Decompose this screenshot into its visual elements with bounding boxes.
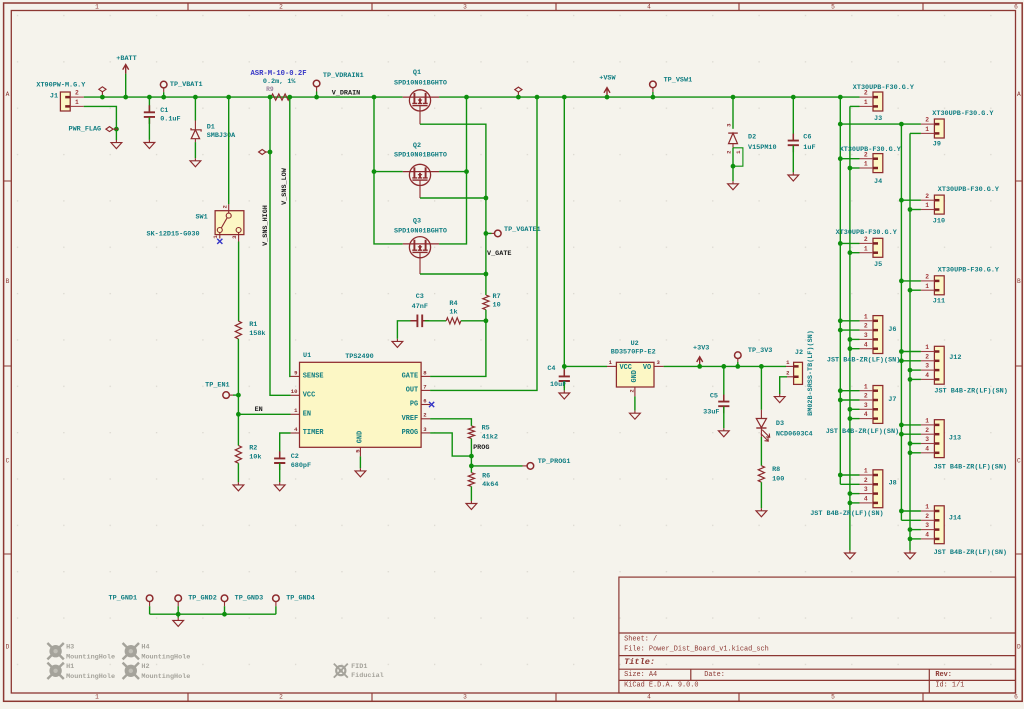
mounting hole H4 [123, 643, 139, 659]
svg-text:XT30UPB-F30.G.Y: XT30UPB-F30.G.Y [938, 186, 1000, 194]
junction [908, 527, 913, 532]
junction [651, 95, 656, 100]
junction [731, 95, 736, 100]
U1 pin 10 VCC [291, 394, 300, 396]
junction [735, 364, 740, 369]
wire pin 2 [840, 399, 859, 401]
J14 pin 1 [921, 510, 935, 512]
connector J1 XT90PW-M.G.Y [60, 92, 70, 111]
wire pin1 to GND column [910, 289, 921, 291]
wire pin 2 [901, 360, 921, 362]
test point TP_VBAT1 [163, 88, 165, 93]
diode D2 V15PM10 [732, 97, 734, 129]
svg-text:VCC: VCC [303, 391, 315, 399]
wire V_SNS_LOW (R9 right to U1 SENSE) [289, 97, 292, 376]
test point TP_GND1 [146, 595, 153, 602]
test point TP_EN1 [229, 394, 233, 396]
svg-text:5: 5 [831, 694, 835, 701]
svg-text:2: 2 [864, 236, 868, 243]
connector J13 JST B4B-ZR(LF)(SN) [934, 420, 944, 458]
resistor R9 ASR-M-10-0.2F shunt [271, 94, 290, 100]
wire PROG pin to node [430, 433, 471, 456]
wire node to R6 [470, 456, 472, 473]
junction [469, 454, 474, 459]
D2 pins 1+2 tie loop [732, 148, 734, 166]
svg-text:47nF: 47nF [412, 303, 428, 311]
no-connect on U1 PG [429, 402, 434, 407]
junction [899, 279, 904, 284]
wire gate bus V_GATE [420, 124, 486, 295]
junction [838, 95, 843, 100]
test point TP_GND3 [221, 595, 228, 602]
junction [899, 122, 904, 127]
wire 3V3 rail [664, 365, 786, 367]
J6 pin 2 [860, 329, 874, 331]
svg-text:XT30UPB-F30.G.Y: XT30UPB-F30.G.Y [836, 229, 898, 237]
U1 pin 1 EN [291, 413, 300, 415]
junction [484, 231, 489, 236]
svg-text:2: 2 [864, 323, 868, 330]
svg-text:XT90PW-M.G.Y: XT90PW-M.G.Y [36, 82, 86, 90]
junction [791, 95, 796, 100]
wire VREF to R5 [430, 419, 471, 426]
wire pin1 to GND column [850, 252, 860, 254]
svg-text:1: 1 [95, 694, 99, 701]
junction [236, 412, 241, 417]
svg-text:R6: R6 [482, 473, 490, 481]
svg-text:4: 4 [864, 341, 868, 348]
svg-text:VREF: VREF [402, 415, 419, 423]
svg-text:PROG: PROG [473, 444, 489, 452]
svg-text:V_SNS_LOW: V_SNS_LOW [281, 167, 289, 205]
svg-text:2: 2 [279, 694, 283, 701]
connector J9 XT30UPB-F30.G.Y [934, 119, 944, 138]
svg-text:PROG: PROG [402, 429, 419, 437]
svg-text:+VSW: +VSW [599, 74, 616, 82]
capacitor C3 47nF [392, 339, 403, 348]
svg-text:10: 10 [291, 388, 298, 395]
svg-text:1: 1 [925, 418, 929, 425]
svg-text:1: 1 [864, 99, 868, 106]
J13 pin 1 [921, 424, 935, 426]
test point TP_3V3 [737, 358, 739, 362]
capacitor C6 1uF [792, 97, 794, 140]
svg-text:J10: J10 [933, 217, 945, 225]
ground right column [905, 550, 916, 559]
junction [848, 337, 853, 342]
wire pin 3 [910, 443, 921, 445]
svg-text:J1: J1 [50, 92, 58, 100]
svg-text:R8: R8 [772, 466, 780, 474]
regulator U2 BD3570FP-E2 [616, 362, 654, 387]
junction [908, 288, 913, 293]
junction [721, 364, 726, 369]
J13 pin 2 [921, 433, 935, 435]
junction [372, 95, 377, 100]
svg-text:D1: D1 [207, 123, 215, 131]
wire U1 OUT to VSW bus [430, 97, 537, 390]
svg-text:B: B [1017, 278, 1021, 285]
wire bus to SW1 [228, 97, 230, 204]
J12 pin 2 [921, 360, 935, 362]
svg-text:2: 2 [864, 393, 868, 400]
svg-text:TP_GND3: TP_GND3 [235, 594, 264, 602]
wire pin2 to +VSW column [840, 242, 859, 244]
junction [605, 95, 610, 100]
J2 pin 1 [786, 365, 794, 367]
J8 pin 1 [860, 474, 874, 476]
svg-text:3: 3 [925, 436, 929, 443]
J6 pin 3 [860, 338, 874, 340]
svg-text:J7: J7 [888, 396, 896, 404]
capacitor C1 0.1uF [148, 97, 150, 112]
wire pin 4 [910, 538, 921, 540]
transistor Q1 SPD10N01BGHTO [409, 90, 430, 111]
svg-text:EN: EN [303, 410, 311, 418]
svg-text:7: 7 [423, 383, 426, 390]
svg-text:XT30UPB-F30.G.Y: XT30UPB-F30.G.Y [840, 146, 902, 154]
junction [226, 95, 231, 100]
svg-text:3: 3 [463, 694, 467, 701]
junction [562, 364, 567, 369]
svg-text:1: 1 [864, 161, 868, 168]
connector J4 XT30UPB-F30.G.Y [873, 154, 883, 173]
svg-text:4: 4 [925, 532, 929, 539]
junction [314, 95, 319, 100]
junction [484, 272, 489, 277]
junction [848, 346, 853, 351]
svg-text:JST B4B-ZR(LF)(SN): JST B4B-ZR(LF)(SN) [934, 549, 1007, 557]
junction [838, 156, 843, 161]
wire pin 4 [850, 418, 860, 420]
wire pin2 to +VSW column [901, 280, 921, 282]
junction [731, 164, 736, 169]
U1 pin 9 SENSE [291, 375, 300, 377]
svg-text:6: 6 [1014, 4, 1018, 11]
junction [838, 241, 843, 246]
test point TP_VDRAIN1 [316, 87, 318, 92]
J14 pin 2 [921, 519, 935, 521]
J3 pin 2 [860, 96, 874, 98]
junction [838, 122, 843, 127]
svg-text:C5: C5 [710, 393, 718, 401]
svg-text:PWR_FLAG: PWR_FLAG [69, 125, 102, 133]
wire V_SNS_HIGH (R9 left to U1 VCC) [270, 97, 291, 395]
svg-text:J8: J8 [889, 480, 897, 488]
wire pin 3 [910, 369, 921, 371]
LED D3 NCD0603C4 [760, 366, 762, 409]
junction [848, 407, 853, 412]
svg-text:TP_GND4: TP_GND4 [286, 594, 315, 602]
svg-text:SK-12D15-G030: SK-12D15-G030 [147, 230, 200, 238]
junction [464, 95, 469, 100]
junction [176, 612, 181, 617]
wire R1 to EN node [237, 339, 239, 414]
J12 pin 4 [921, 378, 935, 380]
resistor R6 4k64 [468, 473, 474, 487]
svg-text:4: 4 [864, 496, 868, 503]
wire pin 1 [840, 390, 859, 392]
svg-text:2: 2 [925, 513, 929, 520]
J8 pin 4 [860, 502, 874, 504]
svg-text:C6: C6 [803, 134, 811, 142]
svg-text:A: A [6, 91, 10, 98]
wire pin2 to +VSW column [840, 158, 859, 160]
wire SW1 to R1 [238, 242, 240, 322]
svg-text:J3: J3 [874, 115, 882, 123]
wire pin 4 [910, 378, 921, 380]
svg-text:TP_GND2: TP_GND2 [188, 594, 217, 602]
wire pin 4 [850, 348, 860, 350]
junction [268, 150, 273, 155]
J2 pin 2 [787, 376, 794, 378]
svg-text:1: 1 [925, 504, 929, 511]
wire TP_GND bus [150, 613, 276, 615]
power flag PWR_FLAG (GND net) [106, 127, 113, 132]
wire to Q2 drain [374, 171, 403, 173]
test point TP_PROG1 [471, 465, 522, 467]
wire gate node down to U1 GATE [430, 321, 486, 377]
junction [562, 95, 567, 100]
wire pin1 to GND column [910, 209, 921, 211]
svg-text:Id: 1/1: Id: 1/1 [935, 681, 964, 689]
svg-text:J14: J14 [949, 515, 961, 523]
J1 pin 1 [70, 105, 84, 107]
svg-text:BM02B-SRSS-TB(LF)(SN): BM02B-SRSS-TB(LF)(SN) [807, 330, 815, 416]
svg-text:V_SNS_HIGH: V_SNS_HIGH [262, 205, 270, 246]
svg-text:0.2m, 1%: 0.2m, 1% [263, 78, 297, 86]
power symbol +BATT [125, 74, 127, 98]
junction [287, 95, 292, 100]
U1 pin 6 PG [421, 404, 430, 406]
wire pin 3 [910, 529, 921, 531]
svg-text:JST B4B-ZR(LF)(SN): JST B4B-ZR(LF)(SN) [827, 357, 900, 365]
svg-text:MountingHole: MountingHole [66, 673, 115, 681]
ground at J1 pin1 [111, 140, 122, 149]
svg-text:3: 3 [864, 402, 868, 409]
svg-text:680pF: 680pF [291, 462, 311, 470]
connector J11 XT30UPB-F30.G.Y [934, 276, 944, 295]
wire LED to R8 [760, 437, 762, 466]
J14 pin 4 [921, 538, 935, 540]
power flag on +VSW net [515, 87, 522, 92]
svg-text:TP_VGATE1: TP_VGATE1 [504, 226, 541, 234]
wire source tie vertical [439, 97, 466, 244]
svg-text:MountingHole: MountingHole [141, 673, 190, 681]
svg-text:1: 1 [864, 383, 868, 390]
svg-text:R9: R9 [266, 86, 274, 93]
junction [848, 416, 853, 421]
wire R4 to gate node [461, 320, 486, 322]
ground left column [845, 550, 856, 559]
connector J12 JST B4B-ZR(LF)(SN) [934, 346, 944, 384]
svg-text:D3: D3 [776, 420, 784, 428]
wire pin 4 [850, 502, 860, 504]
wire VSW bus (Q1 source to J3) [439, 96, 859, 98]
svg-text:J9: J9 [933, 140, 941, 148]
svg-text:2: 2 [75, 90, 79, 97]
svg-text:Q3: Q3 [413, 218, 421, 226]
wire bus to C4/U2 [564, 97, 607, 366]
svg-text:33uF: 33uF [703, 409, 719, 417]
wire pin 3 [850, 408, 860, 410]
junction [899, 423, 904, 428]
U2 pin 3 VO [654, 365, 664, 367]
U1 pin 5 GND [359, 447, 361, 456]
J9 pin 2 [921, 123, 935, 125]
svg-text:2: 2 [925, 427, 929, 434]
svg-text:4: 4 [647, 4, 651, 11]
svg-text:Fiducial: Fiducial [351, 672, 384, 680]
svg-text:V_DRAIN: V_DRAIN [332, 90, 361, 98]
J7 pin 3 [860, 408, 874, 410]
wire V_DRAIN / +BATT bus (J1 to Q1 drain) [84, 96, 403, 98]
test point TP_GND4 [273, 595, 280, 602]
svg-text:V15PM10: V15PM10 [748, 144, 777, 152]
connector J7 JST B4B-ZR(LF)(SN) [873, 386, 883, 424]
capacitor C2 680pF [280, 433, 291, 456]
svg-text:A: A [1017, 91, 1021, 98]
wire R7 to node [485, 310, 487, 321]
resistor R7 10 [483, 295, 489, 310]
wire pin 1 [901, 351, 921, 353]
U2 pin 1 VCC [607, 365, 616, 367]
resistor R2 10k [237, 414, 239, 445]
wire pin1 to GND column [850, 105, 860, 107]
J10 pin 1 [921, 209, 935, 211]
junction [908, 450, 913, 455]
wire Q2 source [439, 171, 466, 173]
svg-text:3: 3 [864, 332, 868, 339]
svg-text:MountingHole: MountingHole [141, 653, 190, 661]
mounting hole H3 [47, 643, 63, 659]
svg-text:2: 2 [279, 4, 283, 11]
wire pin 3 [850, 493, 860, 495]
junction [838, 318, 843, 323]
svg-text:JST B4B-ZR(LF)(SN): JST B4B-ZR(LF)(SN) [810, 510, 883, 518]
svg-text:6: 6 [1014, 694, 1018, 701]
J5 pin 1 [860, 252, 874, 254]
svg-text:SENSE: SENSE [303, 372, 324, 380]
SW1 pin 3 (bottom right) [238, 233, 240, 242]
svg-text:4: 4 [925, 445, 929, 452]
svg-text:U1: U1 [303, 352, 311, 360]
J13 pin 3 [921, 443, 935, 445]
wire J1 pin1 to gnd [84, 106, 117, 140]
transistor Q3 SPD10N01BGHTO [409, 237, 430, 258]
svg-text:J4: J4 [874, 178, 882, 186]
svg-text:H4: H4 [141, 644, 149, 652]
svg-text:File: Power_Dist_Board_v1.kica: File: Power_Dist_Board_v1.kicad_sch [624, 645, 769, 653]
U2 pin 2 GND [634, 387, 636, 396]
J3 pin 1 [860, 105, 874, 107]
svg-text:Date:: Date: [704, 671, 725, 679]
junction [147, 95, 152, 100]
svg-text:Q2: Q2 [413, 142, 421, 150]
junction [100, 95, 105, 100]
svg-text:VCC: VCC [620, 364, 632, 372]
svg-text:Size: A4: Size: A4 [624, 671, 657, 679]
J6 pin 1 [860, 320, 874, 322]
wire pin 4 [910, 452, 921, 454]
svg-text:R5: R5 [482, 425, 490, 433]
connector J10 XT30UPB-F30.G.Y [934, 195, 944, 214]
svg-text:5: 5 [831, 4, 835, 11]
svg-text:TPS2490: TPS2490 [345, 353, 374, 361]
svg-text:R7: R7 [493, 293, 501, 301]
wire pin 2 [901, 519, 921, 521]
ground below R2 [233, 482, 244, 491]
wire pin 2 [840, 483, 859, 485]
junction [236, 393, 241, 398]
svg-text:C1: C1 [160, 107, 168, 115]
junction [838, 473, 843, 478]
connector J6 JST B4B-ZR(LF)(SN) [873, 316, 883, 354]
svg-text:1: 1 [864, 313, 868, 320]
svg-text:EN: EN [255, 406, 263, 414]
svg-text:C3: C3 [416, 293, 424, 301]
test point TP_VGATE1 [486, 232, 492, 234]
svg-text:2: 2 [925, 353, 929, 360]
svg-text:GND: GND [357, 431, 365, 443]
svg-text:OUT: OUT [406, 386, 418, 394]
wire pin2 to +VSW column [901, 199, 921, 201]
junction [899, 349, 904, 354]
switch SW1 SK-12D15-G030 [215, 211, 244, 235]
junction [193, 95, 198, 100]
connector J2 BM02B-SRSS-TB(LF)(SN) [794, 362, 803, 384]
wire pin1 to GND column [910, 132, 921, 134]
J6 pin 4 [860, 348, 874, 350]
svg-text:+3V3: +3V3 [693, 344, 709, 352]
junction [899, 432, 904, 437]
svg-text:MountingHole: MountingHole [66, 653, 115, 661]
svg-text:TP_PROG1: TP_PROG1 [538, 458, 571, 466]
svg-text:KiCad E.D.A. 9.0.0: KiCad E.D.A. 9.0.0 [624, 681, 698, 689]
wire pin2 to +VSW column [901, 123, 921, 125]
U1 pin 2 VREF [421, 418, 430, 420]
svg-text:4: 4 [864, 411, 868, 418]
svg-text:C: C [6, 458, 10, 465]
connector J8 JST B4B-ZR(LF)(SN) [873, 470, 883, 508]
svg-text:1k: 1k [449, 309, 457, 317]
junction [469, 464, 474, 469]
svg-text:GND: GND [631, 370, 639, 382]
junction [268, 95, 273, 100]
svg-text:H3: H3 [66, 644, 74, 652]
svg-text:1: 1 [75, 99, 79, 106]
junction [372, 169, 377, 174]
svg-text:XT30UPB-F30.G.Y: XT30UPB-F30.G.Y [853, 84, 915, 92]
junction [516, 95, 521, 100]
resistor R1 158k [235, 321, 241, 339]
svg-text:J6: J6 [888, 326, 896, 334]
svg-text:J12: J12 [949, 354, 961, 362]
wire pin 3 [850, 338, 860, 340]
svg-text:2: 2 [864, 477, 868, 484]
J4 pin 2 [860, 158, 874, 160]
wire pin 2 [901, 433, 921, 435]
J11 pin 1 [921, 289, 935, 291]
svg-text:C2: C2 [291, 453, 299, 461]
junction [908, 377, 913, 382]
svg-text:C4: C4 [547, 365, 555, 373]
J1 pin 2 [70, 96, 84, 98]
test point TP_GND2 [175, 595, 182, 602]
J4 pin 1 [860, 167, 874, 169]
diode D1 SMBJ30A (TVS) [194, 97, 196, 120]
junction [908, 368, 913, 373]
